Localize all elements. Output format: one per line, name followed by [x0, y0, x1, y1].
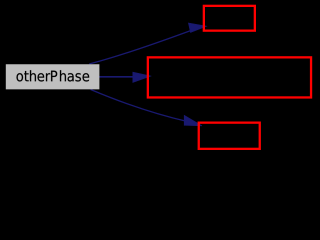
node: middle red box: [148, 57, 311, 97]
node: bottom red box: [199, 123, 260, 149]
wire: edge otherPhase -> bottom node: [91, 90, 202, 126]
wire: edge otherPhase -> middle node: [99, 72, 151, 82]
node: top red box: [204, 6, 255, 31]
node otherPhase (current node, grey): [6, 64, 100, 89]
wire: edge otherPhase -> top node: [89, 23, 206, 64]
